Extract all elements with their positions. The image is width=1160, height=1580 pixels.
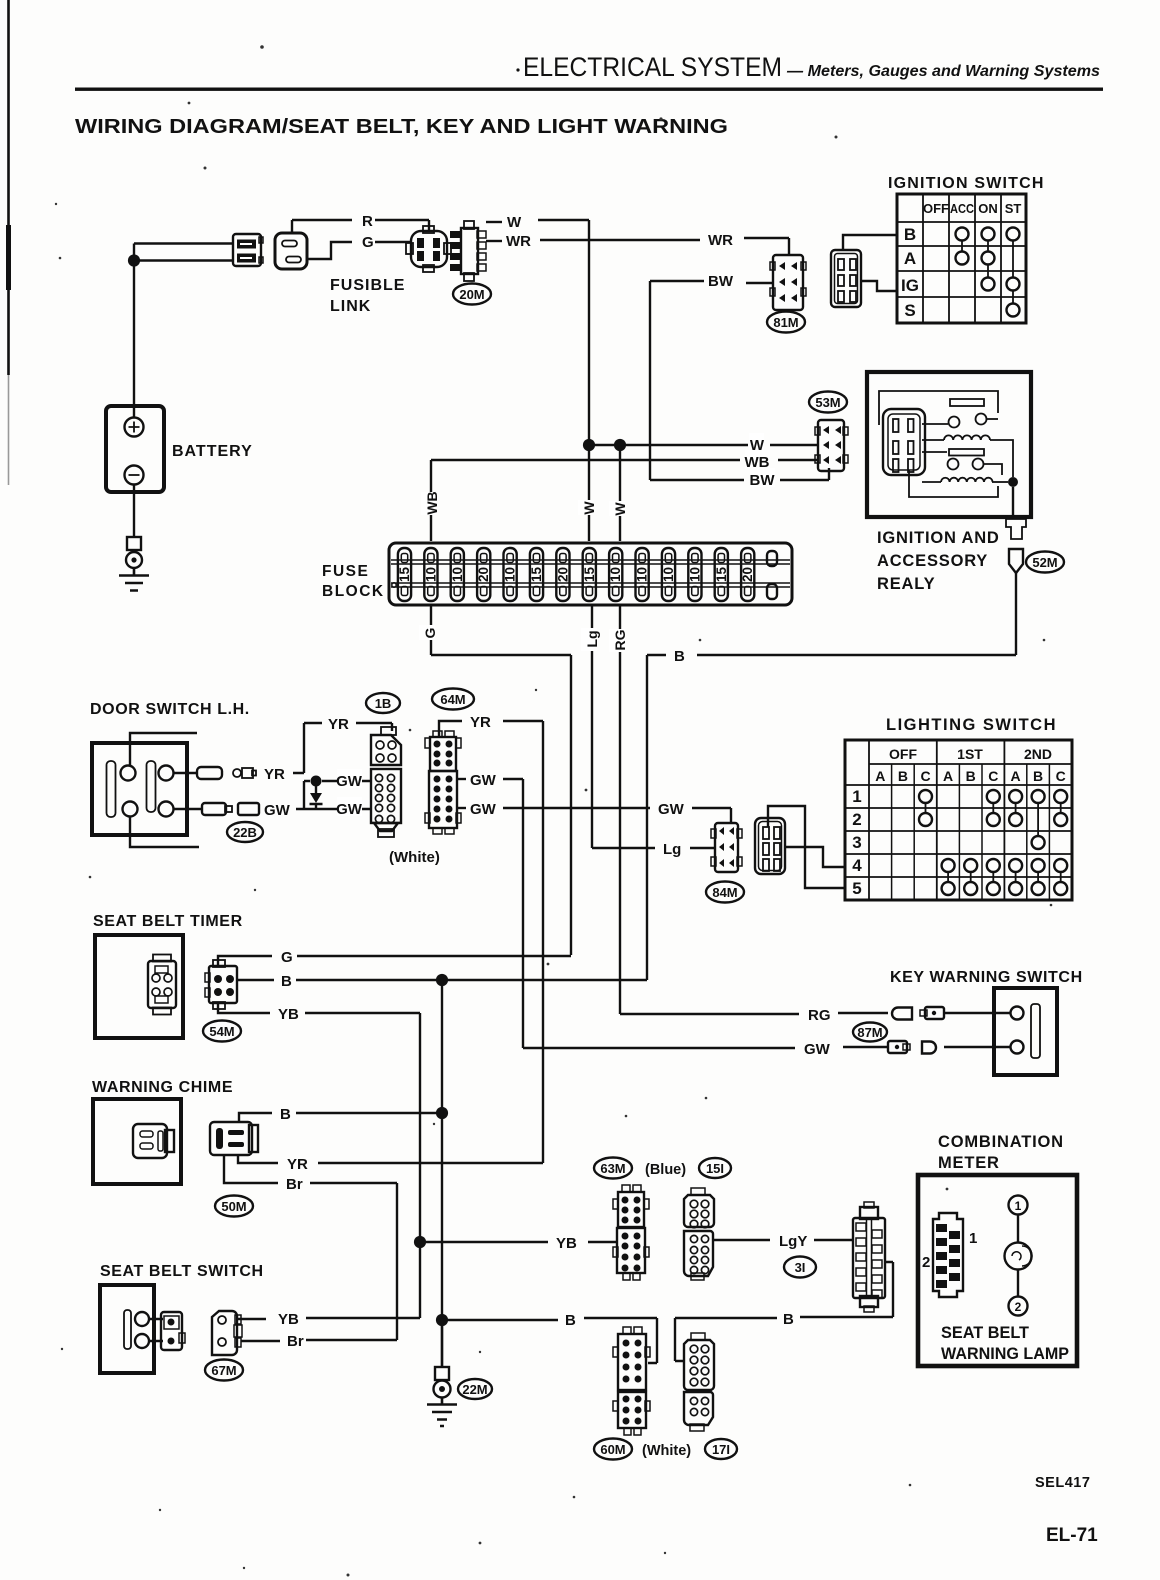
svg-text:15: 15: [714, 567, 729, 583]
label 84M: [706, 882, 744, 903]
svg-text:50M: 50M: [221, 1199, 246, 1214]
wire B from relay: [697, 573, 1016, 655]
svg-text:15: 15: [582, 567, 597, 583]
label 53M: [809, 392, 847, 413]
connector lighting switch: [755, 818, 785, 874]
svg-text:B: B: [904, 225, 916, 244]
svg-text:22M: 22M: [462, 1382, 487, 1397]
svg-text:WB: WB: [745, 454, 770, 471]
connector 54M: [205, 960, 237, 1009]
svg-text:10: 10: [687, 567, 702, 582]
lamp circuit: [1009, 1196, 1028, 1215]
svg-text:1: 1: [969, 1230, 977, 1247]
svg-text:81M: 81M: [773, 315, 798, 330]
node B junction chime: [436, 1107, 448, 1119]
svg-text:A: A: [1011, 768, 1021, 784]
svg-text:YR: YR: [287, 1156, 308, 1173]
node battery junction: [128, 254, 140, 266]
node B junction bottom: [436, 1314, 448, 1326]
svg-text:GW: GW: [264, 802, 291, 819]
svg-text:G: G: [422, 627, 438, 638]
svg-text:4: 4: [852, 856, 862, 875]
connector 64M: [425, 731, 461, 834]
svg-text:OFF: OFF: [889, 746, 917, 762]
svg-text:20: 20: [555, 567, 570, 582]
node W junction 1: [589, 444, 748, 446]
wire timer B: [237, 979, 274, 981]
svg-text:LIGHTING SWITCH: LIGHTING SWITCH: [886, 716, 1057, 734]
connector 60M: [613, 1327, 650, 1435]
svg-text:WARNING LAMP: WARNING LAMP: [941, 1345, 1069, 1363]
connector battery terminal: [233, 234, 263, 266]
label 17I: [705, 1439, 737, 1459]
connector 1B: [371, 727, 401, 837]
svg-text:15: 15: [397, 567, 412, 583]
wire lighting row4: [784, 847, 845, 867]
wire WR: [486, 240, 502, 242]
svg-text:Br: Br: [287, 1333, 304, 1350]
wire B bottom right: [675, 1318, 685, 1361]
svg-text:10: 10: [608, 567, 623, 582]
svg-text:YR: YR: [470, 714, 491, 731]
wire BW: [650, 280, 704, 282]
svg-text:GW: GW: [470, 772, 497, 789]
svg-text:1ST: 1ST: [957, 746, 983, 762]
svg-text:B: B: [783, 1311, 794, 1328]
svg-text:LgY: LgY: [779, 1233, 807, 1250]
svg-text:WARNING CHIME: WARNING CHIME: [92, 1079, 233, 1096]
svg-text:Lg: Lg: [663, 841, 681, 858]
fusible link FL: [275, 233, 405, 315]
svg-text:IGNITION AND: IGNITION AND: [877, 529, 1000, 547]
wire switch YB: [237, 1318, 266, 1320]
svg-text:GW: GW: [336, 773, 363, 790]
svg-text:BLOCK: BLOCK: [322, 583, 385, 600]
svg-text:YB: YB: [556, 1235, 577, 1252]
wire RG: [620, 1013, 799, 1015]
connector 3I: [853, 1202, 885, 1312]
svg-text:B: B: [280, 1106, 291, 1123]
wire relay B output: [1012, 487, 1014, 517]
label 22B: [227, 822, 263, 842]
svg-text:GW: GW: [470, 801, 497, 818]
svg-text:S: S: [904, 301, 915, 320]
svg-text:10: 10: [661, 567, 676, 582]
specks (noise): [204, 167, 207, 170]
svg-text:87M: 87M: [857, 1025, 882, 1040]
label 64M: [432, 689, 474, 710]
svg-text:W: W: [581, 501, 597, 515]
node B junction timer: [436, 974, 448, 986]
svg-text:B: B: [966, 768, 976, 784]
connector 20M female: [406, 226, 451, 272]
label 15I: [699, 1158, 731, 1178]
svg-text:(Blue): (Blue): [645, 1162, 686, 1178]
svg-text:2: 2: [922, 1254, 930, 1271]
svg-text:BATTERY: BATTERY: [172, 443, 253, 460]
connector meter: [933, 1213, 963, 1297]
svg-text:1B: 1B: [375, 696, 392, 711]
svg-text:YR: YR: [264, 766, 285, 783]
svg-text:84M: 84M: [712, 885, 737, 900]
svg-text:(White): (White): [642, 1443, 691, 1459]
svg-text:2: 2: [852, 810, 861, 829]
svg-text:SEAT BELT TIMER: SEAT BELT TIMER: [93, 913, 243, 930]
wire G from fuse: [431, 605, 571, 955]
svg-text:GW: GW: [658, 801, 685, 818]
svg-text:ACC: ACC: [950, 201, 975, 216]
connector relay terminal: [1006, 519, 1026, 573]
svg-text:10: 10: [450, 567, 465, 582]
svg-text:DOOR SWITCH L.H.: DOOR SWITCH L.H.: [90, 701, 250, 718]
label 3I: [784, 1257, 816, 1278]
warning chime: [92, 1079, 233, 1184]
connector 20M male: [450, 221, 486, 281]
wire chime YR: [238, 1155, 278, 1163]
wire Lg from fuse: [591, 605, 593, 848]
ground 22M: [427, 1320, 457, 1426]
svg-text:22B: 22B: [233, 825, 257, 840]
svg-text:10: 10: [423, 567, 438, 582]
svg-text:ON: ON: [978, 201, 998, 216]
label 81M: [767, 312, 805, 333]
key warning switch: [890, 969, 1083, 1075]
svg-text:KEY WARNING SWITCH: KEY WARNING SWITCH: [890, 969, 1083, 986]
label 60M: [594, 1439, 632, 1460]
connector relay internal: [883, 409, 925, 475]
door switch LH: [90, 701, 250, 847]
wire timer G: [218, 956, 272, 966]
node relay junction: [1008, 477, 1018, 487]
svg-text:3: 3: [852, 833, 861, 852]
svg-text:(White): (White): [389, 849, 440, 866]
svg-text:FUSE: FUSE: [322, 563, 369, 580]
wire R: [292, 220, 352, 233]
svg-text:R: R: [362, 213, 373, 230]
svg-text:LINK: LINK: [330, 298, 371, 315]
svg-text:IGNITION SWITCH: IGNITION SWITCH: [888, 175, 1045, 192]
svg-text:54M: 54M: [209, 1024, 234, 1039]
svg-text:SEAT BELT: SEAT BELT: [941, 1324, 1029, 1342]
connector 53M: [815, 420, 848, 471]
lamp seat belt warning: [1005, 1243, 1032, 1270]
seat belt switch: [100, 1263, 264, 1373]
svg-text:A: A: [875, 768, 885, 784]
svg-text:10: 10: [635, 567, 650, 582]
label 87M: [853, 1023, 887, 1042]
connector 67M: [212, 1311, 242, 1355]
wire chime B: [239, 1113, 272, 1122]
svg-text:20: 20: [476, 567, 491, 582]
wire B trunk: [441, 980, 443, 1367]
fuse block: [322, 543, 792, 605]
svg-text:3I: 3I: [795, 1260, 806, 1275]
connector 84M: [711, 823, 742, 872]
svg-text:20M: 20M: [459, 287, 484, 302]
svg-text:Br: Br: [286, 1176, 303, 1193]
wire W to fuse 9: [619, 445, 621, 541]
svg-text:YR: YR: [328, 716, 349, 733]
wire GW: [523, 1047, 795, 1049]
svg-text:IG: IG: [901, 276, 919, 295]
connector 17I: [684, 1333, 714, 1431]
svg-text:2: 2: [1015, 1300, 1022, 1314]
svg-text:ACCESSORY: ACCESSORY: [877, 552, 988, 570]
wire W top: [486, 221, 502, 223]
node W junction 2: [614, 439, 626, 451]
node YB junction: [414, 1236, 426, 1248]
svg-text:RG: RG: [612, 629, 628, 650]
relay internals: [879, 391, 1013, 497]
svg-text:B: B: [898, 768, 908, 784]
svg-text:YB: YB: [278, 1311, 299, 1328]
ignition switch table: [888, 175, 1045, 323]
svg-text:B: B: [674, 648, 685, 665]
wire ignition IG: [861, 281, 897, 291]
svg-text:15I: 15I: [706, 1161, 724, 1176]
svg-text:OFF: OFF: [923, 201, 949, 216]
wire YB branch to 63M: [420, 1241, 548, 1243]
svg-text:ST: ST: [1005, 201, 1022, 216]
svg-text:B: B: [565, 1312, 576, 1329]
connector 15I: [684, 1188, 714, 1280]
svg-text:GW: GW: [336, 801, 363, 818]
svg-text:17I: 17I: [712, 1442, 730, 1457]
wire lighting row5: [768, 806, 845, 888]
label 67M: [205, 1360, 243, 1381]
label 52M: [1026, 552, 1064, 573]
seat belt timer: [93, 913, 243, 1038]
svg-text:COMBINATION: COMBINATION: [938, 1133, 1064, 1151]
connector 63M: [613, 1185, 649, 1280]
svg-text:W: W: [612, 502, 628, 516]
svg-text:53M: 53M: [815, 395, 840, 410]
wire GW to 1B: [322, 780, 371, 782]
svg-text:METER: METER: [938, 1154, 1000, 1172]
wire LgY: [713, 1239, 770, 1241]
svg-text:REALY: REALY: [877, 575, 935, 593]
svg-text:G: G: [281, 949, 293, 966]
svg-text:A: A: [904, 249, 916, 268]
svg-text:ELECTRICAL SYSTEM: ELECTRICAL SYSTEM: [523, 52, 782, 82]
svg-text:WR: WR: [708, 232, 733, 249]
wire GW 64M upper to key switch: [456, 778, 466, 780]
svg-text:WR: WR: [506, 233, 531, 250]
svg-text:A: A: [943, 768, 953, 784]
diode: [311, 776, 322, 787]
wire battery negative to ground: [133, 485, 135, 538]
svg-text:BW: BW: [708, 273, 734, 290]
wire door YR: [174, 772, 198, 774]
wire door GW: [174, 808, 203, 810]
svg-text:GW: GW: [804, 1041, 831, 1058]
svg-text:10: 10: [503, 567, 518, 582]
label 20M: [453, 284, 491, 305]
svg-text:SEL417: SEL417: [1035, 1475, 1090, 1491]
wire RG from fuse: [619, 605, 621, 1014]
svg-text:BW: BW: [750, 472, 776, 489]
svg-text:EL-71: EL-71: [1046, 1525, 1098, 1546]
svg-text:1: 1: [1015, 1199, 1022, 1213]
wire B bottom left: [442, 1319, 558, 1321]
svg-text:YB: YB: [278, 1006, 299, 1023]
svg-text:2ND: 2ND: [1024, 746, 1052, 762]
svg-text:G: G: [362, 234, 374, 251]
label 50M: [215, 1196, 253, 1217]
svg-text:FUSIBLE: FUSIBLE: [330, 277, 405, 294]
label 22M: [458, 1379, 492, 1399]
svg-text:— Meters, Gauges and Warning S: — Meters, Gauges and Warning Systems: [786, 63, 1100, 80]
svg-text:20: 20: [740, 567, 755, 582]
wire YR 64M to chime: [439, 721, 462, 737]
wire chime Br: [224, 1155, 278, 1183]
svg-text:C: C: [1056, 768, 1066, 784]
svg-text:RG: RG: [808, 1007, 831, 1024]
battery: [106, 406, 253, 492]
svg-text:5: 5: [852, 879, 861, 898]
svg-text:64M: 64M: [440, 692, 465, 707]
connector 50M: [210, 1122, 258, 1155]
wire GW 64M lower to 84M: [456, 807, 466, 809]
wire G: [307, 242, 352, 259]
svg-text:WB: WB: [424, 491, 440, 514]
svg-text:52M: 52M: [1032, 555, 1057, 570]
label 1B: [366, 693, 400, 713]
svg-text:B: B: [281, 973, 292, 990]
svg-text:B: B: [1033, 768, 1043, 784]
svg-text:1: 1: [852, 787, 861, 806]
svg-text:63M: 63M: [600, 1161, 625, 1176]
wire Lg to 84M: [592, 847, 655, 849]
page left margin rule: [7, 0, 10, 375]
wire battery positive: [134, 244, 233, 418]
relay ignition and accessory box: [867, 372, 1031, 517]
connector ignition switch: [831, 250, 861, 307]
svg-text:60M: 60M: [600, 1442, 625, 1457]
svg-text:W: W: [507, 214, 522, 231]
label 63M: [594, 1158, 632, 1179]
lighting switch table: [845, 716, 1072, 900]
svg-text:Lg: Lg: [584, 630, 600, 647]
wire WB: [431, 460, 740, 541]
svg-text:67M: 67M: [211, 1363, 236, 1378]
svg-text:15: 15: [529, 567, 544, 583]
wire timer YB: [218, 1003, 270, 1013]
svg-text:WIRING DIAGRAM/SEAT BELT, KEY: WIRING DIAGRAM/SEAT BELT, KEY AND LIGHT …: [75, 115, 728, 138]
svg-text:SEAT BELT SWITCH: SEAT BELT SWITCH: [100, 1263, 264, 1280]
combination meter: [918, 1133, 1077, 1366]
wire ignition B: [843, 235, 897, 250]
svg-text:C: C: [920, 768, 930, 784]
ground battery: [119, 537, 149, 591]
connector 81M: [770, 255, 806, 310]
wire switch Br: [241, 1340, 280, 1342]
header rule: [75, 88, 1103, 91]
svg-text:C: C: [988, 768, 998, 784]
label 54M: [203, 1021, 241, 1042]
